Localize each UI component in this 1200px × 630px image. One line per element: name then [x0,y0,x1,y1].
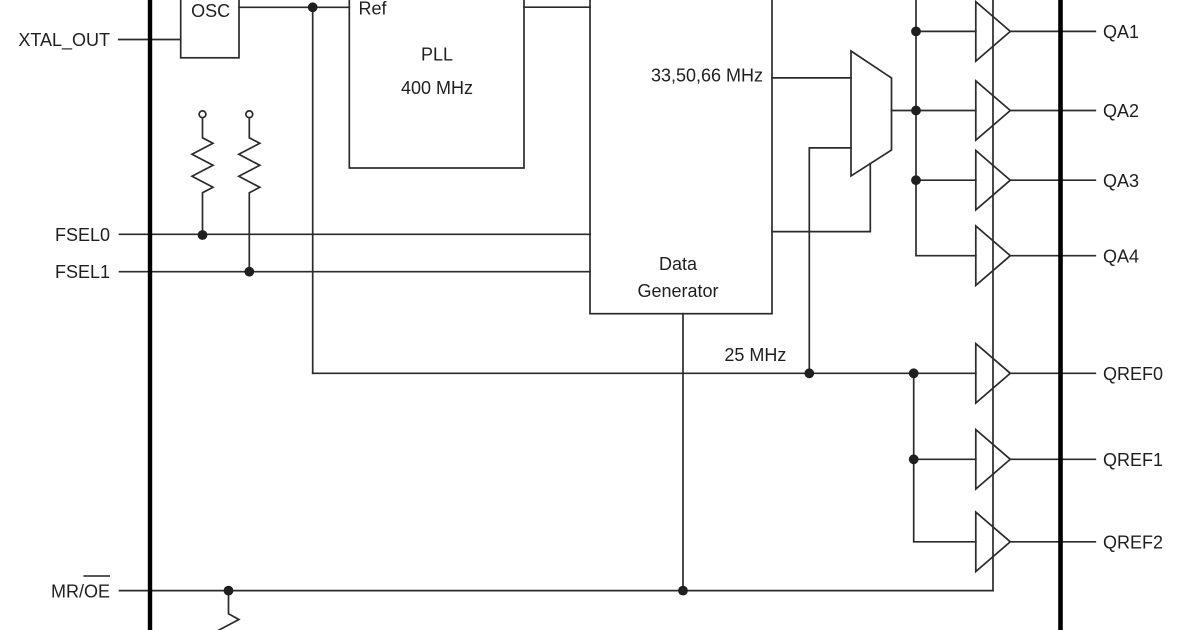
pull-up resistor R2 on FSEL1 [239,111,260,272]
pull-down resistor R3 on MR/OE [218,591,239,630]
wire output enable vertical [992,0,994,591]
svg-text:FSEL0: FSEL0 [55,225,110,245]
svg-text:QA2: QA2 [1103,101,1139,121]
junction MR/OE / R3 [224,586,234,596]
junction 25 MHz / QREF branch [909,368,919,378]
oscillator OSC box [181,0,239,58]
svg-text:Generator: Generator [637,281,718,301]
wire 25 MHz branch up to mux second input [809,148,851,373]
wire QREF0 output [1010,372,1095,374]
junction FSEL0 / R1 [198,230,208,240]
pull-up resistor R1 on FSEL0 [192,111,213,234]
wire MR/OE input [120,590,994,592]
mux M1 [851,51,892,176]
wire QREF1 output [1010,458,1095,460]
left chip boundary [148,0,152,630]
wire QREF2 output [1010,541,1095,543]
wire mux select from data generator [772,164,870,232]
svg-text:XTAL_OUT: XTAL_OUT [18,30,110,51]
wire mux output to bus [892,110,917,112]
wire FSEL0 input [120,233,591,235]
wire data generator bottom to MR/OE [682,314,684,591]
svg-text:PLL: PLL [421,44,453,64]
wire QA3 buffer input [916,179,976,181]
label MR/OE with overline [51,576,110,602]
buffer QA3 [976,151,1011,210]
junction bus QA2 [911,106,921,116]
wire QA4 output [1010,255,1095,257]
svg-text:Ref: Ref [359,0,388,19]
data generator block U2 [590,0,772,314]
svg-text:QA1: QA1 [1103,22,1139,42]
svg-text:33,50,66 MHz: 33,50,66 MHz [651,65,763,85]
wire QREF vertical branch [914,373,976,542]
buffer QREF1 [976,430,1011,489]
svg-text:QREF1: QREF1 [1103,450,1163,470]
junction bus QA3 [911,175,921,185]
junction QREF1 [909,454,919,464]
wire 25 MHz horizontal to QREF0 [313,372,976,374]
svg-text:Data: Data [659,254,698,274]
wire QA2 buffer input [916,110,976,112]
wire QA1 output [1010,30,1095,32]
right chip boundary [1058,0,1063,630]
buffer QA4 [976,226,1011,285]
wire XTAL_OUT input [119,39,181,41]
buffer QA2 [976,81,1011,140]
buffer QREF2 [976,512,1011,571]
svg-text:OSC: OSC [191,1,230,21]
svg-text:QREF0: QREF0 [1103,364,1163,384]
wire QA3 output [1010,179,1095,181]
wire ref vertical from OSC junction down [312,7,314,373]
buffer QA1 [976,2,1011,61]
svg-text:FSEL1: FSEL1 [55,262,110,282]
svg-text:QA4: QA4 [1103,246,1139,266]
junction MR/OE / data generator [678,586,688,596]
wire OSC output to PLL Ref [239,6,349,8]
wire QA bus vertical [916,0,976,256]
junction 25 MHz / mux branch [804,368,814,378]
wire QREF1 buffer input [914,458,976,460]
svg-text:QA3: QA3 [1103,171,1139,191]
svg-text:QREF2: QREF2 [1103,532,1163,552]
junction bus QA1 [911,27,921,37]
buffer QREF0 [976,344,1011,403]
wire FSEL1 input [120,271,591,273]
wire QA2 output [1010,110,1095,112]
wire PLL output to data generator [524,6,590,8]
svg-text:MR/OE: MR/OE [51,582,110,602]
junction FSEL1 / R2 [244,267,254,277]
wire 33,50,66 MHz to mux input [772,77,851,79]
wire QA1 buffer input [916,30,976,32]
svg-text:400 MHz: 400 MHz [401,78,473,98]
svg-text:25 MHz: 25 MHz [724,345,786,365]
PLL block U1 [349,0,524,168]
junction OSC output node [308,2,318,12]
